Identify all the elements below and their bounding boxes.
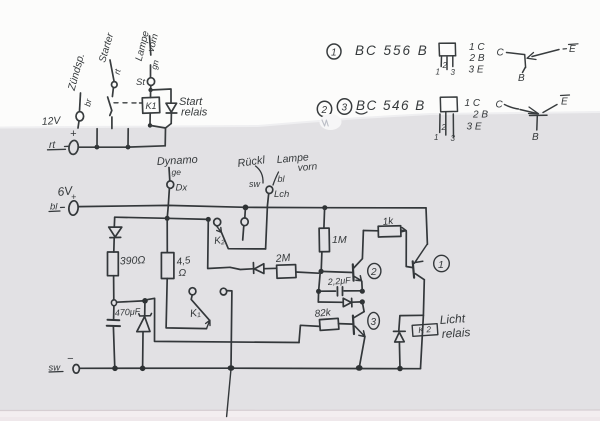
wire Lampe to St terminal <box>150 65 152 78</box>
junction bottom rail at zener <box>140 366 146 372</box>
pin number labels 1 2 3 <box>434 123 456 143</box>
label Lampe rotated <box>134 29 152 62</box>
wire emitter column to Q3 collector <box>362 302 364 312</box>
wire 12V rail <box>78 146 165 147</box>
wire Zuendsp down to terminal <box>80 93 81 111</box>
wire R3 bottom to base node <box>320 252 323 272</box>
svg-text:E: E <box>561 97 568 108</box>
terminal Lch circle <box>266 186 273 193</box>
wire K1 contact b to bottom rail <box>227 291 232 369</box>
wire 82k left corner down to return line <box>299 325 320 342</box>
transistor Q1 base bar <box>413 261 414 277</box>
K1 blade arrow hook <box>206 320 210 328</box>
transistor Q2 emitter with arrow <box>354 276 362 281</box>
svg-text:1 C: 1 C <box>469 42 485 53</box>
junction small circle node <box>111 300 116 306</box>
svg-text:K1: K1 <box>146 101 157 111</box>
svg-text:C: C <box>496 100 504 111</box>
zener D3 bar with hooks <box>139 314 152 317</box>
junction second line right <box>206 217 211 222</box>
wire stub above rail b <box>127 129 129 147</box>
transistor sketch PNP: E lead with arrow <box>532 50 559 57</box>
wire node column down <box>318 273 320 303</box>
resistor R5 1k <box>378 226 401 237</box>
wire below Zuendsp terminal <box>78 121 79 128</box>
svg-text:12V: 12V <box>41 115 61 128</box>
transistor Q1 collector <box>415 274 424 280</box>
pin 3 lead <box>452 114 454 137</box>
label bl with underline <box>50 202 58 213</box>
wire Dynamo stub <box>168 168 171 181</box>
pin 1 lead <box>439 114 441 133</box>
wire starter below circle <box>112 88 113 97</box>
junction bottom rail at K1 wire <box>228 365 235 371</box>
note circled 1 <box>327 44 341 59</box>
label sw <box>249 179 261 189</box>
svg-text:2 B: 2 B <box>469 53 485 64</box>
note type BC 556 B <box>355 43 429 58</box>
package TO-92 outline U2 <box>440 97 457 112</box>
label K1 contact <box>189 307 202 320</box>
fold edge line <box>0 409 600 412</box>
diode D5 (pointing up) <box>394 331 406 342</box>
wire rail corner down to Q1 emitter <box>426 208 427 244</box>
svg-text:−: − <box>67 353 74 365</box>
wire from left to diode D4a <box>230 267 253 269</box>
svg-text:2,2μF: 2,2μF <box>326 275 351 287</box>
svg-text:4,5: 4,5 <box>176 255 192 268</box>
wire 82k right to Q3 base <box>339 323 353 326</box>
wire diode to R1 <box>113 238 115 252</box>
svg-text:sw: sw <box>249 179 261 189</box>
label 2M <box>274 252 291 265</box>
wire Q1 collector down to relay K2 coil <box>421 280 425 369</box>
svg-text:3: 3 <box>451 134 456 143</box>
wire stub above rail a <box>96 129 98 147</box>
wire second line left corner down <box>113 217 115 227</box>
wire R5 arrow down to Q1 base <box>406 232 412 268</box>
contact K1 circle b <box>220 288 226 295</box>
node below St (junction dot) <box>148 88 152 92</box>
note circled 2 <box>317 101 331 117</box>
label gn rotated <box>149 59 161 71</box>
relay coil K2 box <box>412 324 438 337</box>
resistor R1 390R <box>108 252 119 276</box>
grey photocopy sheet <box>0 112 600 411</box>
terminal minus (circle) <box>73 365 79 374</box>
wire zener to bottom rail <box>142 333 144 369</box>
svg-text:bl: bl <box>278 174 286 184</box>
svg-text:1: 1 <box>331 48 337 59</box>
label 12V <box>41 115 61 128</box>
label bl <box>278 174 286 184</box>
wire diode to R4 <box>264 267 277 269</box>
transistor Q1 emitter with arrow (PNP) <box>414 244 427 263</box>
pin 1 lead <box>440 57 442 67</box>
label Lampe vorn (right) <box>276 151 318 174</box>
transistor sketch PNP: C lead <box>497 48 505 59</box>
label 390 Ohm <box>120 254 146 267</box>
svg-text:BC 546 B: BC 546 B <box>356 98 426 113</box>
wire Q2 emitter down <box>361 281 364 291</box>
wire top rail 6V <box>78 205 426 208</box>
dash before 12V terminal <box>65 145 69 147</box>
svg-text:1: 1 <box>436 68 440 77</box>
label Lch <box>274 189 289 200</box>
junction rail at 1M <box>322 205 327 210</box>
label 1M <box>332 234 347 246</box>
pin number labels 1 2 3 <box>436 61 456 77</box>
wire K1 coil bottom <box>149 114 151 126</box>
contact K2 fixed circle under rail <box>244 210 247 218</box>
wire stub below bottom rail <box>227 369 231 417</box>
K2 blade with arrow <box>216 226 221 233</box>
label 82k <box>314 307 332 320</box>
bottom edge tint <box>0 417 600 421</box>
wire Q2 collector corner to R5 <box>363 230 378 232</box>
transistor sketch NPN: E lead <box>543 105 557 113</box>
note type BC 546 B <box>356 98 426 113</box>
wire diode bottom <box>170 113 172 124</box>
svg-text:Ω: Ω <box>179 268 187 279</box>
contact K2 circle (moving) <box>214 218 221 225</box>
svg-text:1 C: 1 C <box>465 98 481 109</box>
tail below K2 fixed contact <box>243 226 244 240</box>
bottom pink strip <box>0 411 600 421</box>
label ge <box>172 167 182 177</box>
capacitor C1 wires and plates <box>113 306 115 319</box>
junction cap left <box>316 289 321 294</box>
label 1k <box>382 216 395 228</box>
svg-text:St: St <box>136 77 145 88</box>
label rt rotated <box>112 67 123 75</box>
resistor R6 82k <box>319 318 338 330</box>
svg-text:vorn: vorn <box>297 161 318 174</box>
svg-text:82k: 82k <box>314 307 332 320</box>
label Start relais <box>179 96 208 119</box>
capacitor C2 2.2uF label <box>326 275 351 287</box>
wire from 2M-line corner down (from K2 dot) <box>208 219 230 268</box>
wire St to node <box>150 86 152 90</box>
label vorn rotated <box>146 33 161 54</box>
svg-text:E: E <box>569 44 576 55</box>
transistor Q2 collector <box>354 231 364 269</box>
svg-text:Dx: Dx <box>176 183 189 194</box>
relay coil K1 (box) <box>142 97 160 113</box>
diode D4a (pointing left) <box>253 263 264 274</box>
junction diode right <box>360 299 365 304</box>
transistor sketch PNP: B lead <box>523 68 526 73</box>
capacitor C2 wires and plates <box>321 290 336 292</box>
wire base node to Q2 base <box>321 271 353 272</box>
junction on 12V rail a <box>95 145 100 150</box>
resistor R4 2M <box>277 265 296 279</box>
junction zener top <box>142 298 148 304</box>
svg-text:2: 2 <box>370 267 377 278</box>
svg-text:3 E: 3 E <box>469 65 484 76</box>
terminal 6V plus (big circle) <box>68 200 79 215</box>
transistor Q2 base bar <box>352 264 355 280</box>
transistor sketch NPN: C lead <box>496 100 504 111</box>
junction bottom rail at C1 <box>112 366 118 372</box>
wire R4 to base node <box>296 272 319 273</box>
wire K1 bottom to 12V rail drop <box>150 124 171 129</box>
wire R1 bottom <box>113 276 115 300</box>
wire Lampe upper <box>150 36 151 55</box>
capacitor C1 470uF label <box>114 306 141 318</box>
label Dx <box>176 183 189 194</box>
transistor sketch PNP: bar <box>524 55 527 68</box>
terminal 12V rt (big circle) <box>68 140 79 155</box>
svg-text:ge: ge <box>172 167 182 177</box>
comma between circles <box>332 118 334 122</box>
label Zuendsp. (ignition) rotated <box>66 52 88 93</box>
terminal St circle <box>147 78 154 86</box>
wire diode branch lower <box>318 301 343 303</box>
wire bottom rail <box>79 367 420 370</box>
flourish under B of BC <box>356 112 367 114</box>
transistor Q3 emitter with arrow <box>355 326 365 336</box>
starter connector circle <box>112 82 118 88</box>
label Licht relais <box>439 311 471 341</box>
wire rail to R3 <box>323 208 326 228</box>
terminal Dx circle <box>167 181 174 188</box>
svg-text:C: C <box>497 48 505 59</box>
wire second line to R2 top <box>166 221 168 253</box>
label br (wire colour) rotated <box>82 97 94 108</box>
junction below K1 <box>148 123 152 127</box>
diode D2 (down) <box>109 227 122 238</box>
svg-text:relais: relais <box>181 107 208 119</box>
wire drop to 12V rail <box>164 128 166 146</box>
svg-text:2M: 2M <box>274 252 291 265</box>
label circled 3 at Q3 <box>368 312 380 329</box>
svg-text:+: + <box>70 128 77 140</box>
label Starter rotated <box>97 31 116 64</box>
svg-text:K 2: K 2 <box>418 324 432 335</box>
wire node to diode branch <box>151 89 171 103</box>
junction cap right <box>360 289 365 294</box>
pinout list 1C 2B 3E <box>469 42 486 76</box>
wire R2 bottom to K1 blade <box>166 279 206 329</box>
svg-text:2: 2 <box>321 105 328 116</box>
stroke from bl to terminal <box>273 172 279 185</box>
label plus sign <box>70 128 77 140</box>
svg-text:2 B: 2 B <box>472 110 488 121</box>
svg-text:3: 3 <box>342 103 348 114</box>
pinout list 1C 2B 3E <box>465 98 489 133</box>
svg-text:Dynamo: Dynamo <box>157 154 199 168</box>
label 6V+ <box>57 183 76 202</box>
svg-text:3 E: 3 E <box>467 122 482 133</box>
svg-text:3: 3 <box>371 317 377 328</box>
diode D1 across K1 coil <box>166 103 177 113</box>
starter switch blade <box>108 97 112 116</box>
svg-text:1: 1 <box>434 133 438 142</box>
terminal Zuendsp (circle) <box>76 112 84 121</box>
diode D4 (pointing right) <box>343 298 352 307</box>
wire freewheel branch left <box>399 315 424 331</box>
label Dynamo <box>157 154 199 168</box>
K1 blade <box>191 295 209 320</box>
pin 2 lead <box>445 112 447 135</box>
pin 2 lead <box>446 57 448 70</box>
transistor Q3 base bar <box>353 316 354 334</box>
wire Lch down across rail <box>266 193 269 249</box>
label K2 in box <box>418 324 432 335</box>
pin 3 lead <box>452 57 454 67</box>
zener D3 triangle <box>137 317 150 332</box>
transistor sketch NPN: bar horizontal <box>530 114 548 116</box>
label circled 1 at Q1 <box>434 255 450 271</box>
white-out correction patch <box>320 114 342 130</box>
zener D3 wire from junction <box>144 303 146 315</box>
label Rueckl <box>237 154 266 170</box>
junction rail at K2 fixed <box>243 205 249 211</box>
label K1 in box <box>146 101 157 111</box>
junction on 12V rail b <box>126 145 131 150</box>
junction bottom rail at D5 <box>397 366 403 372</box>
junction bottom rail at Q3 emitter <box>356 365 363 371</box>
wire starter to edge <box>111 117 113 129</box>
wire node to zener junction <box>117 301 143 302</box>
wire node to K1 coil top <box>150 90 152 98</box>
label 4,5 Ohm <box>176 255 192 279</box>
svg-text:BC 556 B: BC 556 B <box>355 43 429 58</box>
wire K2 blade to Lch line <box>221 232 265 249</box>
resistor R3 1M <box>319 228 329 252</box>
label K2 contact <box>214 235 226 247</box>
svg-text:1: 1 <box>438 259 444 271</box>
label sw minus <box>49 363 62 374</box>
svg-text:3: 3 <box>451 68 456 77</box>
note circled 3 <box>337 99 351 115</box>
svg-text:B: B <box>532 132 539 143</box>
wire diode to bottom rail <box>398 342 401 368</box>
wire emitter return from zener junction <box>148 298 299 342</box>
label circled 2 at Q2 <box>368 263 381 278</box>
svg-text:1M: 1M <box>332 234 347 246</box>
svg-text:390Ω: 390Ω <box>120 254 146 267</box>
junction Dx on second line <box>165 216 170 221</box>
wire Q3 emitter to bottom rail <box>359 337 365 368</box>
label rt with underline <box>49 140 56 151</box>
dashed link starter switch to K1 <box>114 102 142 104</box>
wire R5 right with arrow <box>401 228 407 232</box>
wire Dx down through rail to second line <box>167 188 169 218</box>
wire diode to emitter column <box>352 301 361 303</box>
transistor sketch NPN: B lead <box>536 116 539 130</box>
transistor Q3 collector <box>354 312 364 318</box>
package TO-92 outline U1 <box>439 43 456 56</box>
svg-text:2: 2 <box>442 61 448 70</box>
grey sheet soft top edge <box>0 112 600 128</box>
svg-text:relais: relais <box>441 325 471 341</box>
wire second line (regulator bus) <box>115 217 209 219</box>
svg-text:2: 2 <box>441 123 447 132</box>
junction base node <box>319 269 324 274</box>
wire starter upper <box>110 60 114 81</box>
stroke under Rueckl curving to terminal <box>256 166 264 183</box>
contact K1 circle a <box>189 288 196 295</box>
svg-text:B: B <box>518 73 525 84</box>
resistor R2 4.5R <box>161 253 174 279</box>
transistor sketch NPN: arrow to bar <box>520 110 537 114</box>
svg-text:Lch: Lch <box>274 189 289 200</box>
svg-text:470μF: 470μF <box>114 306 141 318</box>
label St <box>136 77 145 88</box>
